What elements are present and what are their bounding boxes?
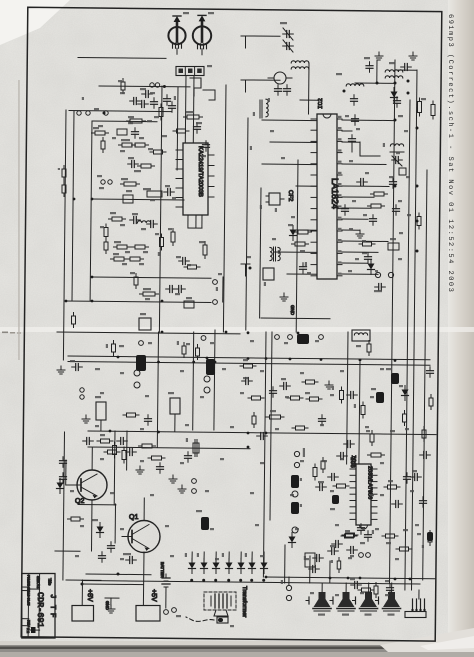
svg-text:LA1824: LA1824 (330, 178, 340, 209)
svg-text:BATTER: BATTER (160, 562, 165, 578)
svg-text:CF2: CF2 (287, 190, 294, 202)
svg-text:+8V: +8V (86, 589, 93, 602)
svg-text:Title: Title (47, 578, 52, 586)
svg-text:+5V: +5V (150, 589, 157, 602)
svg-text:F: F (48, 613, 56, 618)
svg-text:KA22419/TA2003B: KA22419/TA2003B (197, 146, 204, 197)
svg-text:IC3: IC3 (349, 457, 356, 468)
svg-text:J: J (48, 594, 56, 599)
svg-text:Size A4: Size A4 (36, 576, 40, 588)
svg-text:Q2: Q2 (75, 498, 84, 505)
svg-text:GND: GND (290, 305, 295, 316)
svg-text:R 2: R 2 (26, 628, 30, 633)
svg-text:691mp3 (Correct).sch-1 - Sat N: 691mp3 (Correct).sch-1 - Sat Nov 01 12:5… (446, 14, 455, 293)
svg-text:REV: REV (27, 620, 31, 628)
svg-text:IC2: IC2 (317, 98, 324, 109)
svg-text:CDR-691: CDR-691 (35, 592, 45, 628)
svg-text:M.B 98.05: M.B 98.05 (27, 591, 31, 606)
svg-text:T: T (48, 605, 56, 610)
svg-text:PHMKS 98: PHMKS 98 (27, 575, 31, 591)
svg-text:Transformer: Transformer (241, 586, 248, 617)
svg-text:GND: GND (105, 601, 110, 610)
svg-text:Q1: Q1 (129, 514, 138, 521)
